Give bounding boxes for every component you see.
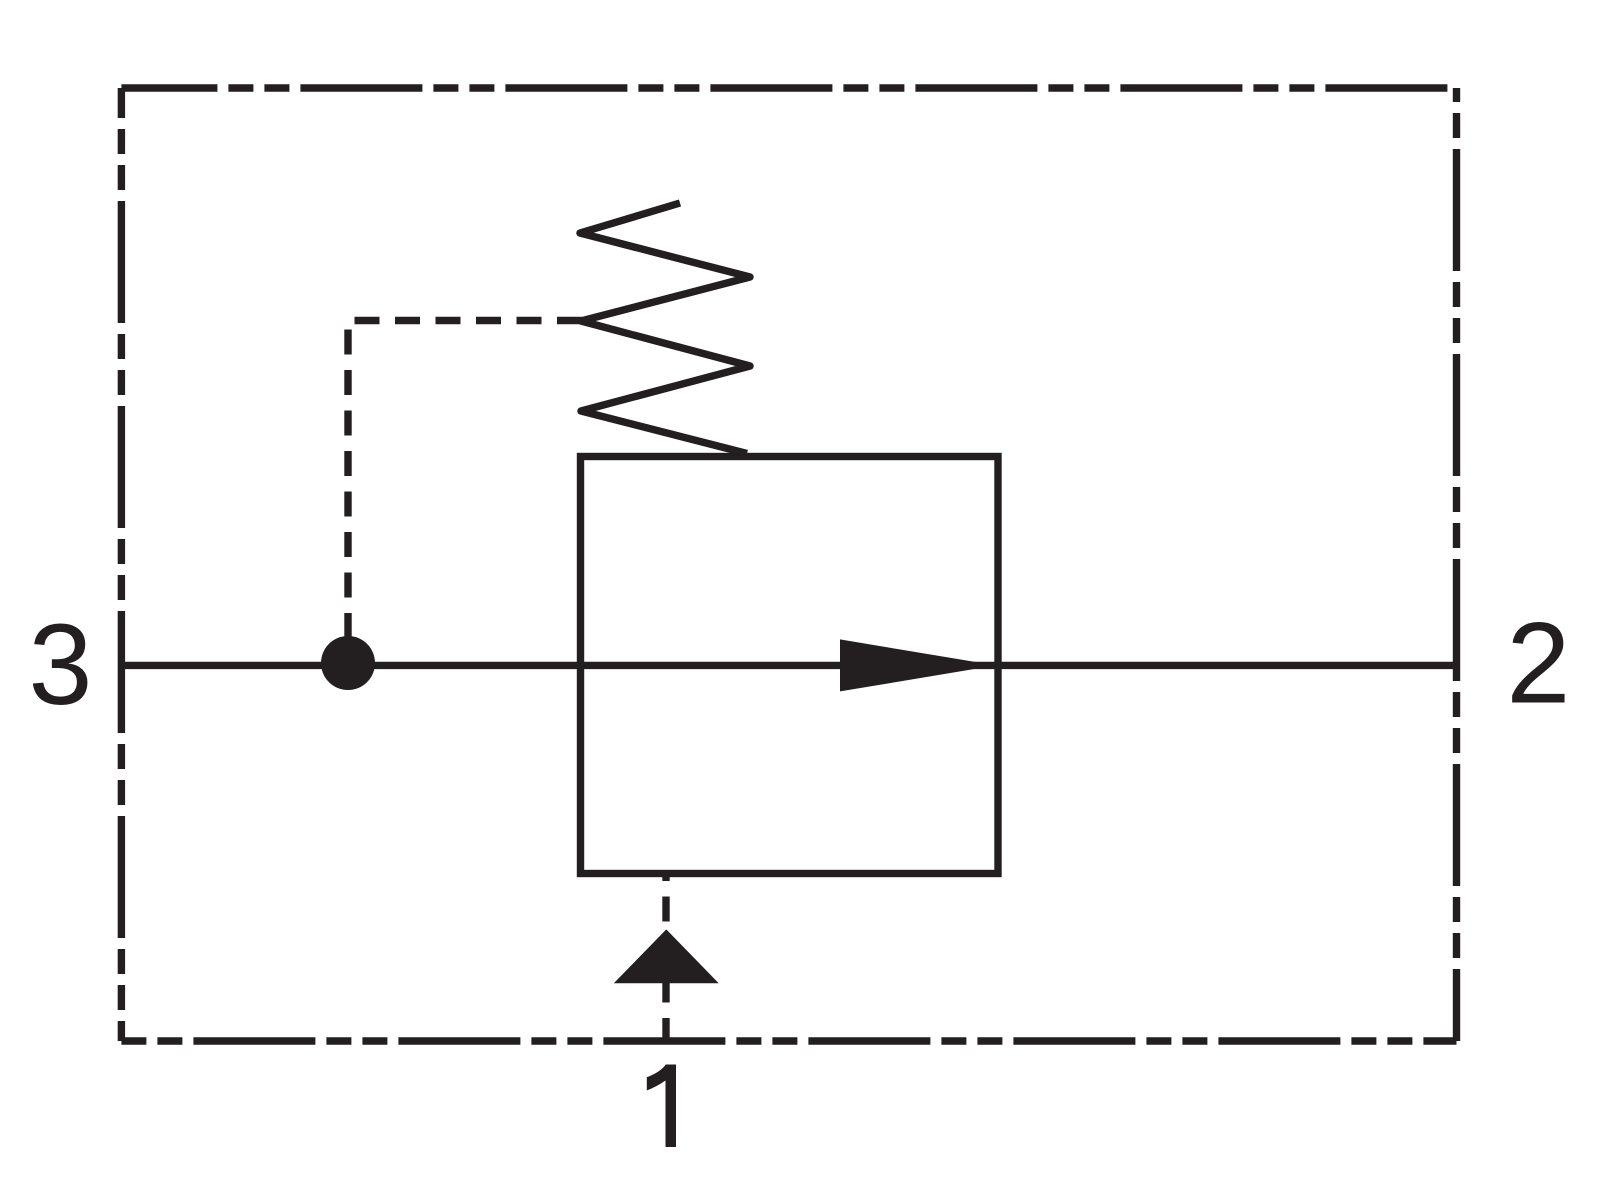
svg-text:2: 2 [1506,600,1570,728]
svg-text:3: 3 [29,601,93,729]
